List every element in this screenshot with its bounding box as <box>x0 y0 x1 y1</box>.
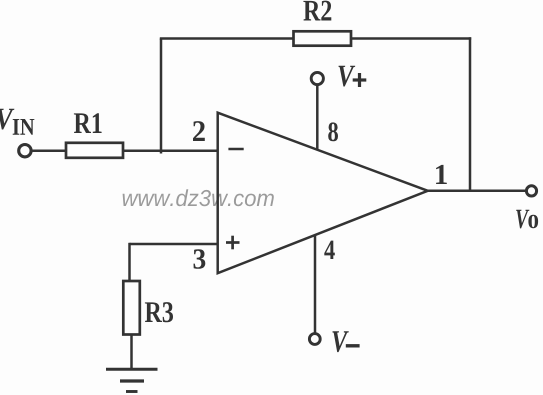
wire down to R3 <box>128 243 131 281</box>
resistor R2 <box>294 1 352 46</box>
label V0 <box>516 210 538 229</box>
pin 2 label <box>193 121 205 141</box>
wire pin 4 to V- terminal <box>314 235 317 333</box>
wire pin 3 horizontal <box>130 243 218 246</box>
wire V+ terminal to pin 8 <box>316 86 319 150</box>
pin 4 label <box>324 241 335 259</box>
label VIN <box>0 109 34 135</box>
wire feedback top to R2 <box>160 37 294 40</box>
pin 8 label <box>328 122 338 141</box>
wire feedback vertical left <box>160 39 163 154</box>
wire feedback down to output node <box>469 37 472 191</box>
terminal V- <box>309 334 320 345</box>
ground <box>106 369 158 391</box>
op-amp U1 <box>218 113 428 274</box>
pin 1 label <box>436 165 447 184</box>
output terminal V0 <box>526 186 536 196</box>
input terminal VIN <box>19 145 31 157</box>
label V- <box>332 331 359 352</box>
wire input terminal to R1 <box>32 149 68 152</box>
wire R3 to ground <box>130 335 133 369</box>
label V+ <box>339 66 367 87</box>
wire R1 to op-amp pin 2 <box>124 149 218 152</box>
resistor R3 <box>123 281 173 335</box>
pin 3 label <box>194 249 206 268</box>
resistor R1 <box>66 113 123 158</box>
wire op-amp output <box>428 190 527 193</box>
terminal V+ <box>311 72 323 84</box>
wire R2 to top right corner <box>351 37 471 40</box>
